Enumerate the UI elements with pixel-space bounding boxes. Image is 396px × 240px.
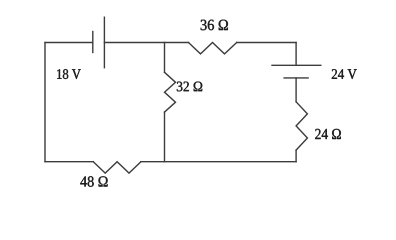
label 36 ohm bbox=[201, 20, 228, 31]
wire top middle segment bbox=[104, 42, 188, 44]
battery V2 24V short plate bbox=[284, 77, 308, 79]
wire bottom right segment bbox=[141, 161, 296, 163]
wire right vertical middle bbox=[295, 78, 297, 102]
wire top right segment bbox=[237, 42, 296, 44]
wire top-left segment bbox=[45, 42, 93, 44]
label 32 ohm bbox=[177, 82, 202, 92]
node top junction bbox=[164, 42, 165, 43]
wire right vertical upper bbox=[295, 43, 297, 66]
wire middle vertical upper bbox=[164, 43, 166, 73]
resistor R48 zigzag bbox=[93, 162, 141, 173]
wire middle vertical lower bbox=[164, 112, 166, 162]
battery V1 18V short plate bbox=[92, 32, 94, 53]
label 24 ohm bbox=[315, 129, 341, 139]
battery V1 18V long plate bbox=[103, 17, 105, 67]
label 48 ohm bbox=[80, 176, 107, 186]
resistor R24 zigzag bbox=[296, 102, 307, 150]
wire left vertical bbox=[44, 43, 46, 162]
wire right vertical lower bbox=[295, 150, 297, 162]
label 24 V bbox=[332, 69, 357, 79]
resistor R32 zigzag bbox=[165, 72, 176, 112]
node bottom junction bbox=[164, 161, 165, 162]
battery V2 24V long plate bbox=[272, 64, 321, 66]
wire bottom left segment bbox=[45, 161, 93, 163]
label 18 V bbox=[57, 69, 81, 79]
resistor R36 zigzag bbox=[189, 43, 237, 54]
